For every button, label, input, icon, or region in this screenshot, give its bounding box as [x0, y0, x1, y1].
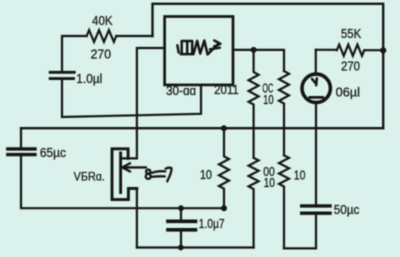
resistor R4 column (mid, x=224) from bus to source bus [219, 128, 229, 208]
node: source bus / R4 bottom [221, 205, 227, 211]
source symbol internals [310, 78, 323, 97]
node: box pin / resistor A top [251, 47, 257, 53]
wire 55K to right rail [364, 49, 383, 51]
svg-text:10: 10 [263, 94, 274, 108]
wire resistor to top-rail corner [116, 35, 152, 37]
svg-text:2011: 2011 [214, 82, 239, 97]
capacitor C4 50µc plates [302, 206, 330, 213]
wire circle top lead [315, 50, 317, 74]
wire box left pin to transistor drain [121, 48, 165, 158]
wire circle bottom to capacitor 50µc [315, 103, 317, 205]
wire C1 bottom to box lower-left pin [62, 80, 201, 117]
wire 65µc bottom to source bus [21, 156, 223, 208]
svg-text:10: 10 [294, 167, 306, 182]
svg-text:06µl: 06µl [336, 84, 360, 99]
resistor R2 zigzag (mid, x=253.6) [249, 158, 259, 248]
wire transistor source down to bottom rail [136, 188, 138, 247]
resistor R3 zigzag (mid, x=284) [279, 155, 289, 248]
node: bus128 / resistor R4 top [221, 125, 227, 131]
transistor Q1 gate arrow [122, 163, 146, 171]
svg-text:1.0µ7: 1.0µ7 [199, 217, 225, 231]
wire circle branch top corner to 55K [316, 49, 337, 51]
source symbol V1 circle [302, 74, 330, 102]
scribble epsilon-arrow right of transistor [146, 168, 172, 182]
transistor Q1 bracket [112, 149, 137, 200]
wire down to capacitor 65µc [20, 128, 22, 146]
resistor RB zigzag (top, x=284) [279, 71, 289, 155]
svg-text:30-ɑɑ: 30-ɑɑ [166, 84, 196, 98]
capacitor C3 1.0µ7 [180, 208, 182, 219]
svg-text:270: 270 [341, 59, 360, 74]
svg-text:50µc: 50µc [334, 203, 360, 218]
resistor RA zigzag (top, x=253.6) [249, 50, 259, 158]
wire 50µc bottom to rail 2 [315, 215, 317, 249]
wire bottom rail segment 2 [284, 247, 316, 249]
wire box right pin to resistor columns [233, 50, 284, 71]
wire bottom rail segment 1 [137, 246, 254, 248]
capacitor C1 1.0µl top stub and wire to resistor [62, 36, 87, 71]
wire bus y=128 right-to-left [21, 127, 383, 129]
svg-text:1.0µl: 1.0µl [76, 72, 102, 86]
IC box U1 [165, 17, 233, 85]
svg-text:10: 10 [264, 176, 276, 190]
svg-text:10: 10 [200, 167, 212, 182]
capacitor C1 1.0µl plates [50, 72, 74, 78]
svg-text:270: 270 [91, 47, 111, 61]
resistor R5 55K zigzag [337, 45, 365, 56]
svg-text:55K: 55K [341, 26, 362, 41]
wire top rail [153, 4, 384, 128]
svg-text:65µc: 65µc [40, 145, 66, 160]
resistor R1 40K zigzag [87, 30, 117, 42]
svg-text:40K: 40K [92, 14, 113, 29]
node: rail / C3 bottom [178, 245, 184, 251]
capacitor C2 65µc plates [8, 149, 35, 155]
accent mark over 30-aa [177, 84, 180, 85]
node: right rail / 55K [380, 47, 386, 53]
scribble inside box [177, 41, 220, 55]
svg-text:VБRɑ.: VБRɑ. [74, 171, 105, 184]
node: source bus / C3 top [178, 205, 184, 211]
